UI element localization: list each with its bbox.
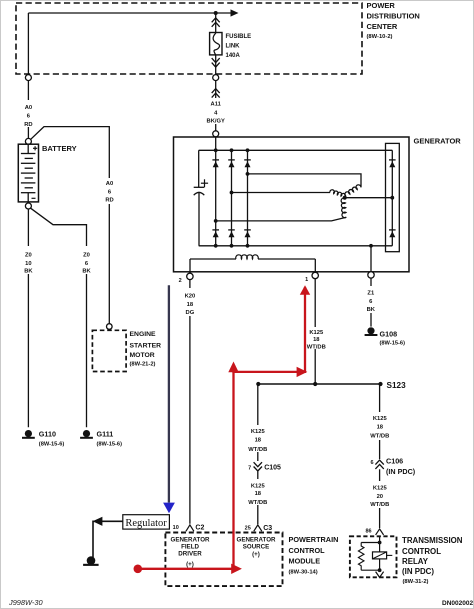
svg-text:BK: BK <box>367 307 376 313</box>
svg-text:STARTER: STARTER <box>130 343 162 350</box>
svg-text:10: 10 <box>173 525 179 531</box>
svg-text:GENERATOR: GENERATOR <box>171 536 210 543</box>
svg-text:K125: K125 <box>309 330 324 336</box>
svg-text:140A: 140A <box>226 53 241 59</box>
svg-text:18: 18 <box>187 302 194 308</box>
svg-text:LINK: LINK <box>226 44 241 50</box>
svg-text:RD: RD <box>105 198 113 204</box>
svg-text:G108: G108 <box>380 330 398 339</box>
svg-text:18: 18 <box>377 424 384 430</box>
svg-text:K125: K125 <box>251 429 266 435</box>
svg-text:MOTOR: MOTOR <box>130 352 155 359</box>
svg-text:POWER: POWER <box>367 1 396 10</box>
svg-text:G110: G110 <box>39 429 56 438</box>
svg-text:BK/GY: BK/GY <box>207 118 225 124</box>
svg-text:K125: K125 <box>251 483 266 489</box>
svg-text:CONTROL: CONTROL <box>402 547 441 556</box>
svg-text:K125: K125 <box>373 486 388 492</box>
svg-text:WT/DB: WT/DB <box>248 447 267 453</box>
svg-text:C105: C105 <box>264 465 281 472</box>
svg-text:WT/DB: WT/DB <box>307 344 326 350</box>
svg-text:Z0: Z0 <box>83 252 90 258</box>
svg-text:J998W-30: J998W-30 <box>8 598 43 607</box>
svg-text:7: 7 <box>248 465 251 471</box>
svg-text:(8W-15-6): (8W-15-6) <box>39 441 65 447</box>
svg-text:GENERATOR: GENERATOR <box>237 536 276 543</box>
svg-text:WT/DB: WT/DB <box>370 434 389 440</box>
svg-text:CONTROL: CONTROL <box>289 546 326 555</box>
svg-text:C2: C2 <box>195 524 204 531</box>
svg-text:A0: A0 <box>25 105 32 111</box>
svg-text:MODULE: MODULE <box>289 557 321 566</box>
svg-text:(8W-21-2): (8W-21-2) <box>130 362 156 368</box>
svg-text:S123: S123 <box>387 381 407 390</box>
svg-text:(8W-31-2): (8W-31-2) <box>403 579 429 585</box>
svg-text:18: 18 <box>255 491 262 497</box>
svg-text:6: 6 <box>371 460 374 466</box>
svg-text:DRIVER: DRIVER <box>178 551 202 558</box>
svg-text:(8W-15-6): (8W-15-6) <box>97 441 123 447</box>
svg-text:GENERATOR: GENERATOR <box>414 137 462 146</box>
svg-text:POWERTRAIN: POWERTRAIN <box>289 535 339 544</box>
svg-text:K125: K125 <box>373 416 388 422</box>
svg-text:(8W-15-6): (8W-15-6) <box>380 341 406 347</box>
svg-text:(IN PDC): (IN PDC) <box>386 467 416 476</box>
svg-text:G111: G111 <box>97 429 114 438</box>
svg-text:20: 20 <box>377 494 383 500</box>
svg-text:WT/DB: WT/DB <box>370 502 389 508</box>
svg-text:1: 1 <box>305 277 308 283</box>
svg-text:C3: C3 <box>263 525 272 532</box>
svg-text:A0: A0 <box>106 181 113 187</box>
svg-text:(8W-10-2): (8W-10-2) <box>367 34 393 40</box>
svg-text:BK: BK <box>24 269 33 275</box>
svg-text:WT/DB: WT/DB <box>248 500 267 506</box>
svg-text:RD: RD <box>24 122 32 128</box>
svg-text:DN002002: DN002002 <box>442 600 473 607</box>
svg-text:A11: A11 <box>211 102 222 108</box>
svg-text:CENTER: CENTER <box>367 22 398 31</box>
svg-text:K20: K20 <box>185 294 196 300</box>
svg-text:FIELD: FIELD <box>181 543 199 550</box>
svg-text:C106: C106 <box>386 457 403 466</box>
svg-text:DG: DG <box>186 310 195 316</box>
svg-text:(+): (+) <box>186 561 194 568</box>
svg-text:(+): (+) <box>252 551 260 558</box>
svg-text:86: 86 <box>365 528 371 534</box>
svg-text:18: 18 <box>313 337 320 343</box>
svg-text:SOURCE: SOURCE <box>243 543 269 550</box>
svg-text:BATTERY: BATTERY <box>42 144 77 153</box>
svg-text:RELAY: RELAY <box>402 557 429 566</box>
svg-text:Z1: Z1 <box>367 291 375 297</box>
svg-text:FUSIBLE: FUSIBLE <box>226 34 252 40</box>
svg-text:10: 10 <box>25 261 31 267</box>
svg-text:18: 18 <box>255 437 262 443</box>
svg-text:(IN PDC): (IN PDC) <box>402 567 434 576</box>
svg-text:TRANSMISSION: TRANSMISSION <box>402 536 463 545</box>
svg-text:BK: BK <box>82 269 91 275</box>
svg-text:25: 25 <box>245 525 251 531</box>
svg-text:DISTRIBUTION: DISTRIBUTION <box>367 11 420 20</box>
svg-text:ENGINE: ENGINE <box>130 331 157 338</box>
svg-text:2: 2 <box>179 278 182 284</box>
svg-text:Regulator: Regulator <box>125 518 167 529</box>
svg-text:(8W-30-14): (8W-30-14) <box>289 570 318 576</box>
svg-text:Z0: Z0 <box>25 252 32 258</box>
